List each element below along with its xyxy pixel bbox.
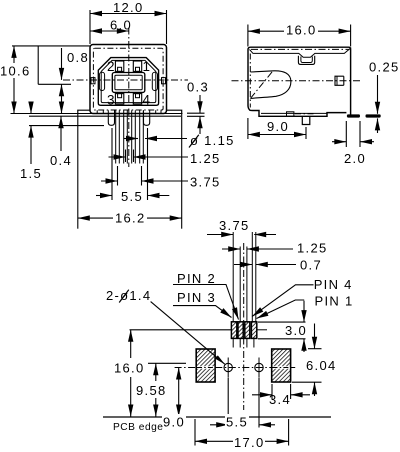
pin slots hatched (231, 322, 256, 339)
dim 3.0 ext lines (258, 321, 306, 323)
leader PIN 1 (257, 300, 305, 319)
label 9.0 side (266, 119, 289, 134)
left latch slot (99, 72, 104, 90)
side right-mid notch (335, 76, 344, 85)
horizontal centerline front view (63, 79, 188, 81)
svg-text:16.0: 16.0 (286, 23, 317, 38)
dim 16.0 fp (130, 330, 132, 358)
hole row line across pads (197, 366, 214, 369)
right latch slot (152, 72, 157, 90)
svg-text:17.0: 17.0 (234, 435, 265, 450)
shield stub right (144, 116, 150, 125)
dim 2.0 (345, 121, 347, 147)
pin 1 front (115, 110, 117, 163)
leader 2-dia1.4 (151, 302, 225, 365)
dim 0.3 (199, 95, 201, 113)
dim 12.0 (89, 10, 91, 44)
svg-text:3: 3 (107, 93, 116, 108)
pin 3 front (131, 110, 133, 163)
side inner top fold line with latch dip and corner hatch (250, 48, 352, 58)
shell right flange foot (167, 110, 182, 113)
svg-text:2.0: 2.0 (344, 151, 366, 166)
dim 0.8 extension path (37, 46, 39, 84)
right dimple (162, 78, 166, 84)
label 5.5 fp (225, 414, 249, 430)
pin line stubs below slots (232, 338, 234, 347)
leader PIN 4 (252, 285, 314, 317)
svg-text:6.04: 6.04 (306, 358, 337, 373)
side horizontal centerline (232, 80, 363, 82)
label 5.5 front (119, 189, 145, 204)
dim 17.0 (194, 419, 196, 446)
svg-text:10.6: 10.6 (0, 64, 31, 79)
dim 16.2 (77, 114, 79, 229)
shell bottom comb ticks (97, 110, 161, 116)
svg-text:5.5: 5.5 (226, 415, 248, 430)
dim 6.04 (314, 324, 316, 349)
0.3 reference segments right (187, 112, 205, 114)
svg-text:5.5: 5.5 (121, 189, 143, 204)
svg-text:9.0: 9.0 (267, 119, 289, 134)
svg-text:0.8: 0.8 (67, 50, 89, 65)
dim 5.5 fp (227, 378, 229, 428)
9.58 tangent ext line (148, 362, 186, 364)
16.0 ext line (130, 329, 232, 331)
svg-text:16.0: 16.0 (114, 361, 145, 376)
dim 6.0 (90, 30, 129, 32)
dim 16.0 top (247, 25, 249, 47)
svg-text:6.0: 6.0 (110, 18, 132, 33)
latch tab U bracket inner (301, 57, 312, 63)
dim 3.4 (271, 384, 273, 399)
shell inset dash-dot line (93, 48, 163, 110)
dim 5.5 front (111, 128, 113, 200)
svg-text:0.25: 0.25 (369, 60, 400, 75)
label 9.58 (135, 382, 169, 398)
pcb bar 1 (347, 114, 360, 117)
line B sheet bottom (29, 115, 181, 117)
PCB edge line (103, 416, 331, 418)
side top inset dash-dot (251, 48, 349, 50)
label 0.4 (49, 153, 72, 168)
dim 9.0 side (247, 118, 249, 139)
leader PIN 2 (173, 285, 239, 320)
dim 3.0 (303, 301, 305, 322)
leader PIN 3 (173, 306, 232, 318)
contact square pin1 (top-right) (133, 61, 141, 71)
svg-text:ø 1.15: ø 1.15 (190, 133, 235, 148)
label 1.5 (19, 166, 42, 181)
locator peg (302, 116, 310, 124)
bottom bump (287, 112, 294, 117)
contact square pin2 (top-left) (115, 61, 123, 71)
label 9.0 fp (162, 414, 186, 430)
svg-text:3.75: 3.75 (219, 218, 250, 233)
svg-text:3.75: 3.75 (190, 175, 221, 190)
svg-text:1.5: 1.5 (20, 166, 42, 181)
footprint vertical centerline (243, 243, 245, 410)
dim 3.75 fp (207, 234, 233, 236)
pin hole lines up (232, 232, 234, 322)
dim 1.25 front (125, 150, 127, 163)
dim 1.5 (30, 104, 32, 114)
shield hole left (224, 363, 232, 371)
label 16.0 side (284, 22, 318, 38)
svg-text:1: 1 (143, 59, 152, 74)
svg-text:PIN 4: PIN 4 (314, 277, 353, 292)
contact square pin4 (bottom-right) (133, 94, 141, 104)
label 10.6 (0, 63, 31, 79)
line C pcb level (29, 125, 104, 127)
svg-text:9.0: 9.0 (163, 415, 185, 430)
svg-text:0.4: 0.4 (50, 153, 72, 168)
svg-text:PIN 3: PIN 3 (177, 290, 216, 305)
tongue outer (112, 73, 145, 93)
side inner left edge dash-dot (249, 54, 251, 108)
svg-text:1.25: 1.25 (190, 151, 221, 166)
svg-text:16.2: 16.2 (115, 211, 146, 226)
svg-text:PIN 2: PIN 2 (177, 271, 216, 286)
mouth outer D-shape (98, 58, 158, 106)
label 16.2 (113, 211, 147, 226)
shell left flange foot (78, 110, 90, 113)
side inner bottom line (261, 112, 327, 114)
dim 1.25 fp (222, 248, 240, 250)
dim 10.6 (12, 45, 90, 47)
label 17.0 (233, 434, 265, 450)
slot pad right (272, 349, 291, 382)
dim 0.4 (60, 116, 62, 151)
vertical centerline front view (128, 28, 130, 168)
side body outline (248, 47, 351, 116)
svg-text:PIN 1: PIN 1 (315, 294, 354, 309)
svg-text:0.7: 0.7 (300, 258, 322, 273)
contact square pin3 (bottom-left) (115, 94, 123, 104)
dim 9.0 fp (178, 368, 180, 417)
dim dia 1.15 (124, 138, 138, 140)
dim 0.7 fp (234, 264, 252, 266)
shield hole right (255, 363, 263, 371)
tongue inner (115, 75, 142, 90)
svg-text:3.0: 3.0 (285, 323, 307, 338)
dim 0.8 (61, 48, 63, 80)
left dimple (91, 78, 95, 84)
svg-text:4: 4 (143, 93, 152, 108)
label 16.0 fp (112, 359, 148, 376)
svg-text:0.3: 0.3 (187, 80, 209, 95)
bulge diagonal dash-dot (251, 71, 274, 99)
mouth inner line (101, 60, 156, 102)
cavity bulge profile (250, 71, 291, 99)
pin 2 front (123, 110, 125, 163)
svg-text:9.58: 9.58 (136, 383, 167, 398)
svg-text:3.4: 3.4 (269, 392, 291, 407)
line A flange bottom (11, 113, 183, 115)
svg-text:2: 2 (107, 59, 116, 74)
pcb bar 2 (366, 114, 381, 117)
dim 0.25 (377, 75, 379, 114)
hole row centerline (175, 367, 196, 369)
bottom dash-dot segs (295, 113, 315, 115)
latch tab U bracket outer (298, 56, 314, 65)
slot pad left (196, 349, 215, 382)
svg-text:PCB edge: PCB edge (113, 422, 163, 433)
shield stub left (108, 116, 114, 125)
front view shell outline (90, 45, 167, 114)
pin 4 front (139, 110, 141, 163)
svg-text:12.0: 12.0 (113, 0, 144, 15)
svg-text:1.25: 1.25 (297, 241, 328, 256)
slot row centerline (257, 329, 267, 331)
dim 3.75 front (117, 166, 119, 186)
dim 9.58 (155, 363, 157, 381)
